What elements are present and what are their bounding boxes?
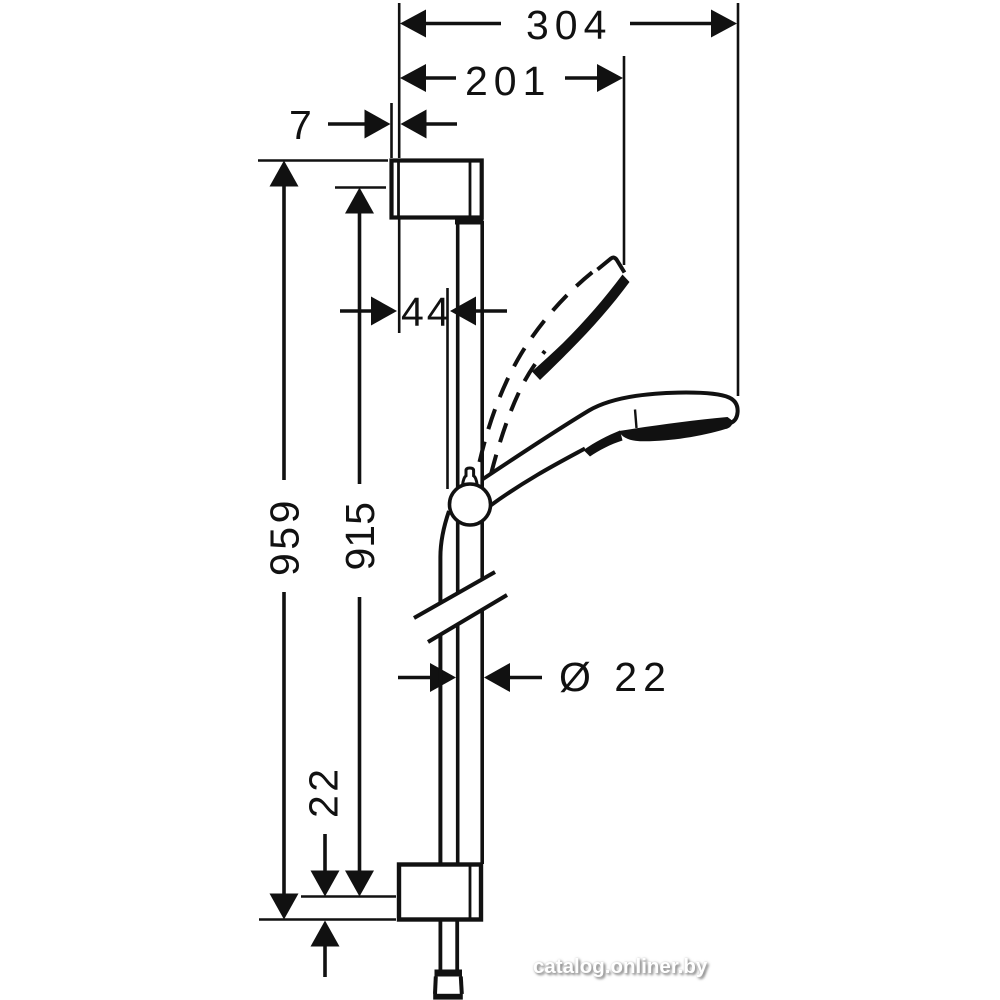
extension line bracket outer left x=391.5 xyxy=(390,103,393,158)
dimension 22 bottom vertical xyxy=(311,834,340,977)
hose below bracket right xyxy=(455,922,459,971)
extension line bracket bottom y=919.5 xyxy=(259,918,396,921)
dimension 959 vertical xyxy=(270,161,299,920)
extension line 959 top y=161.5 xyxy=(258,159,388,162)
rail bar left edge xyxy=(456,221,460,593)
slider knob xyxy=(463,468,478,485)
extension line 915 top y=187.5 xyxy=(335,186,386,189)
extension line 44 left below bracket x=399 xyxy=(398,219,401,333)
dimension 201 xyxy=(400,64,623,92)
dimension 44 xyxy=(340,297,507,326)
dimension 304 xyxy=(400,10,737,38)
dimension dia 22 xyxy=(398,663,542,692)
svg-text:Ø 22: Ø 22 xyxy=(559,654,672,700)
svg-text:44: 44 xyxy=(401,289,453,335)
hose connector nut xyxy=(433,970,463,1000)
hose lower to bottom bracket xyxy=(438,635,442,864)
rail bar right edge xyxy=(480,221,484,579)
extension line right x=738 xyxy=(737,3,740,396)
dimension 915 vertical xyxy=(345,188,374,897)
extension line rail end y=896.5 xyxy=(301,895,396,898)
svg-text:304: 304 xyxy=(526,2,612,48)
dashed head end cap xyxy=(598,258,625,273)
dimension 7 xyxy=(328,110,457,139)
svg-text:catalog.onliner.by: catalog.onliner.by xyxy=(533,955,708,978)
break line upper xyxy=(414,572,495,618)
handle upper outline and head top xyxy=(483,393,738,479)
extension line left (wall line x=399) xyxy=(398,3,401,158)
hose upper from slider xyxy=(440,511,449,603)
handle lower outline xyxy=(491,449,586,506)
bottom wall bracket xyxy=(399,865,481,920)
dashed head spray face band xyxy=(532,275,630,381)
extension line 44 right x=447.5 xyxy=(446,288,449,489)
handle-head underside wedge xyxy=(584,431,623,457)
extension line mid x=624 xyxy=(623,56,626,265)
head seam tick xyxy=(635,410,637,429)
break line lower xyxy=(428,595,507,642)
dashed handle left outline xyxy=(480,269,598,463)
head spray face band xyxy=(619,417,734,441)
watermark catalog.onliner.by xyxy=(533,955,710,980)
svg-text:7: 7 xyxy=(289,102,312,148)
svg-text:959: 959 xyxy=(262,497,308,576)
svg-text:915: 915 xyxy=(337,502,383,570)
svg-text:22: 22 xyxy=(301,765,347,818)
dashed handle right outline xyxy=(491,351,545,474)
slider holder circle xyxy=(450,484,491,525)
hose below bracket left xyxy=(438,922,442,971)
svg-text:201: 201 xyxy=(465,58,551,104)
top wall bracket xyxy=(392,161,484,225)
